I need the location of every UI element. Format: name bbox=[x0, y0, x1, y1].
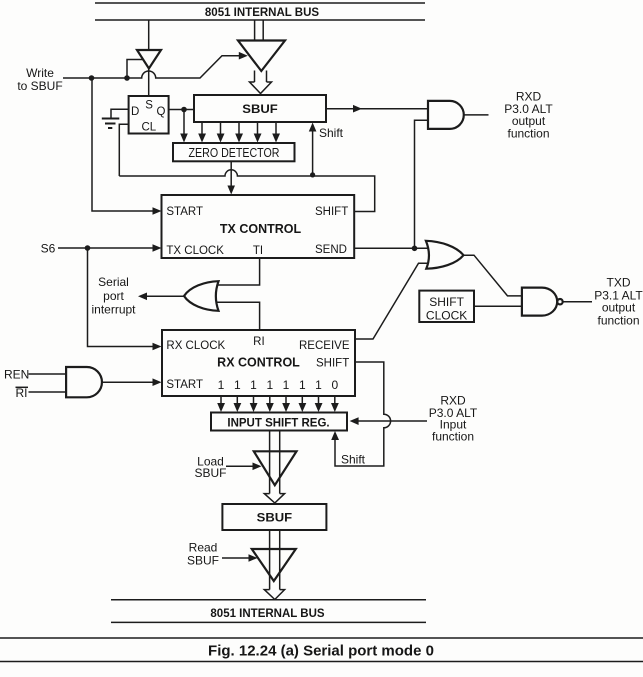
svg-text:CL: CL bbox=[142, 122, 157, 134]
svg-text:1: 1 bbox=[299, 378, 306, 392]
wire: S6 to TX CLOCK bbox=[58, 244, 162, 252]
box: ZERO DETECTOR bbox=[173, 143, 295, 161]
svg-text:Serial: Serial bbox=[98, 275, 129, 289]
svg-text:S: S bbox=[145, 100, 153, 112]
wire: shift clock to NAND bbox=[474, 305, 521, 307]
wire: SEND to right OR gate bbox=[354, 247, 431, 249]
wire: RI input to AND bbox=[29, 391, 67, 393]
label: Write to SBUF bbox=[17, 66, 62, 93]
wire: S6 down to RX CLOCK bbox=[88, 248, 162, 350]
junction dot: shift line node bbox=[310, 172, 315, 177]
label: RI with overline bbox=[16, 386, 29, 400]
svg-text:SBUF: SBUF bbox=[257, 511, 293, 525]
arrows: SBUF to zero detector (5) bbox=[198, 122, 280, 143]
labels: shift register bits 1 1 1 1 1 1 1 0 bbox=[218, 378, 339, 392]
label: TXD P3.1 ALT output function bbox=[594, 276, 643, 328]
wire: RI up to interrupt OR bbox=[216, 302, 260, 330]
and-gate: REN and /RI bbox=[66, 367, 102, 397]
wire: input shift reg to load buffer (double) bbox=[270, 431, 280, 494]
box: SHIFT CLOCK bbox=[419, 291, 474, 323]
bus: 8051 internal bus (bottom) bbox=[111, 600, 426, 623]
wire: zero detector output to TX control top bbox=[227, 161, 235, 194]
buffer: write driver triangle bbox=[238, 41, 285, 72]
buffer: read SBUF triangle bbox=[252, 549, 296, 581]
svg-text:SHIFT: SHIFT bbox=[316, 358, 349, 370]
svg-text:1: 1 bbox=[218, 378, 225, 392]
wire: write line down to TX START bbox=[92, 78, 162, 215]
caption: figure caption rules bbox=[0, 638, 643, 662]
wire: SEND node up to RXD AND gate bbox=[415, 120, 429, 248]
wire: RECEIVE to right OR gate bbox=[355, 263, 431, 339]
arrow: interrupt output to left bbox=[138, 293, 184, 301]
svg-text:1: 1 bbox=[283, 378, 290, 392]
svg-text:INPUT SHIFT REG.: INPUT SHIFT REG. bbox=[227, 417, 329, 429]
inverter: write clock inverter bbox=[137, 50, 161, 69]
junction dot: Q node bbox=[181, 107, 187, 113]
svg-text:1: 1 bbox=[266, 378, 273, 392]
wire: REN input to AND bbox=[29, 373, 67, 375]
wire: write-to-SBUF line with hop and arrow into driver bbox=[63, 52, 248, 78]
wire: Q output to SBUF bbox=[169, 109, 194, 111]
svg-text:port: port bbox=[103, 289, 124, 303]
wire: CL input from shift line bbox=[119, 124, 128, 176]
svg-text:S6: S6 bbox=[41, 242, 56, 256]
svg-text:Read: Read bbox=[189, 541, 218, 555]
svg-text:1: 1 bbox=[250, 378, 257, 392]
label: S6 bbox=[41, 242, 56, 256]
arrow: hollow arrowhead into bottom bus bbox=[264, 590, 284, 600]
label: REN bbox=[4, 368, 29, 382]
svg-text:Q: Q bbox=[157, 106, 166, 118]
register SBUF (top) bbox=[194, 95, 326, 122]
svg-text:Shift: Shift bbox=[341, 453, 366, 467]
svg-text:SBUF: SBUF bbox=[194, 466, 226, 480]
wire: shift arrow up into SBUF bbox=[309, 123, 344, 175]
wire: D input to ground bbox=[111, 109, 129, 118]
svg-text:SBUF: SBUF bbox=[242, 102, 278, 116]
wire: RX SHIFT loop to input shift reg (with hop) bbox=[331, 362, 390, 467]
svg-text:RX CLOCK: RX CLOCK bbox=[166, 340, 225, 352]
label: Load SBUF bbox=[194, 455, 226, 480]
svg-text:TX CONTROL: TX CONTROL bbox=[220, 222, 302, 236]
svg-text:Write: Write bbox=[26, 66, 54, 80]
svg-text:function: function bbox=[597, 313, 639, 327]
svg-text:SHIFT: SHIFT bbox=[429, 295, 464, 309]
junction dot: write line node B bbox=[124, 75, 130, 81]
svg-text:function: function bbox=[432, 429, 474, 443]
junction dot: S6 node bbox=[85, 245, 91, 251]
svg-text:TX CLOCK: TX CLOCK bbox=[166, 245, 224, 257]
svg-text:START: START bbox=[166, 379, 203, 391]
nand-gate: TXD driver bbox=[522, 288, 563, 316]
svg-text:ZERO DETECTOR: ZERO DETECTOR bbox=[189, 146, 280, 160]
svg-text:SEND: SEND bbox=[315, 244, 347, 256]
junction dot: SEND node bbox=[412, 246, 418, 252]
box: INPUT SHIFT REG bbox=[211, 413, 347, 431]
svg-text:Fig. 12.24 (a) Serial port mod: Fig. 12.24 (a) Serial port mode 0 bbox=[208, 643, 434, 660]
arrow: hollow arrowhead into SBUF2 bbox=[264, 494, 284, 503]
wire: inverter output down to flip-flop S (through hop) bbox=[148, 69, 150, 97]
arrow: load SBUF to triangle bbox=[226, 463, 262, 471]
wire: SBUF output to RXD AND gate bbox=[326, 105, 428, 113]
or-gate: serial port interrupt (points left) bbox=[184, 281, 219, 311]
buffer: load SBUF triangle bbox=[254, 451, 297, 485]
block: TX CONTROL bbox=[162, 195, 355, 258]
svg-text:function: function bbox=[507, 127, 549, 141]
wire: TI down to interrupt OR bbox=[216, 258, 260, 285]
label: Read SBUF bbox=[187, 541, 219, 568]
svg-text:interrupt: interrupt bbox=[91, 303, 136, 317]
label: RXD P3.0 ALT output function bbox=[504, 89, 553, 140]
svg-text:REN: REN bbox=[4, 368, 29, 382]
svg-text:RI: RI bbox=[253, 336, 265, 348]
arrows: RX control bits to input shift reg (8) bbox=[217, 396, 339, 412]
svg-text:RECEIVE: RECEIVE bbox=[299, 340, 350, 352]
wire: bus to inverter input bbox=[148, 20, 150, 50]
svg-text:0: 0 bbox=[331, 378, 338, 392]
svg-text:to SBUF: to SBUF bbox=[17, 79, 62, 93]
wire: RXD AND output bbox=[464, 114, 489, 116]
svg-text:1: 1 bbox=[234, 378, 241, 392]
arrow: driver output hollow arrow into SBUF bbox=[250, 71, 272, 94]
svg-text:TI: TI bbox=[253, 245, 263, 257]
wire: bus double lines to write driver bbox=[255, 20, 264, 41]
or-gate: send/receive combiner bbox=[426, 241, 464, 269]
svg-text:1: 1 bbox=[315, 378, 322, 392]
arrow: read SBUF to triangle bbox=[222, 554, 258, 562]
svg-text:SBUF: SBUF bbox=[187, 553, 219, 567]
svg-text:RX CONTROL: RX CONTROL bbox=[217, 356, 300, 370]
svg-text:8051 INTERNAL BUS: 8051 INTERNAL BUS bbox=[205, 7, 320, 19]
wire: NAND output to TXD bbox=[564, 301, 593, 303]
register SBUF (bottom) bbox=[222, 504, 326, 530]
caption: Fig. 12.24 (a) Serial port mode 0 bbox=[208, 643, 434, 660]
arrow: RXD input to input shift reg bbox=[350, 417, 427, 425]
svg-text:CLOCK: CLOCK bbox=[426, 309, 467, 323]
wire: OR output diagonal to NAND bbox=[463, 255, 522, 296]
wire: shift line TX SHIFT to FF CL and SBUF (with hop) bbox=[119, 170, 374, 212]
label: Serial port interrupt bbox=[91, 275, 136, 317]
block: RX CONTROL bbox=[162, 330, 355, 396]
svg-text:START: START bbox=[166, 206, 203, 218]
svg-text:8051 INTERNAL BUS: 8051 INTERNAL BUS bbox=[210, 608, 325, 620]
wire: node B up to inverter side bbox=[127, 60, 143, 79]
svg-text:Shift: Shift bbox=[319, 126, 344, 140]
arrow: Q node down to zero detector bbox=[180, 110, 188, 143]
ground bbox=[102, 119, 120, 129]
and-gate: RXD P3.0 output bbox=[428, 101, 464, 129]
flip-flop U1 D/S/Q/CL bbox=[129, 96, 169, 134]
junction dot: write line node A bbox=[89, 75, 95, 81]
svg-text:D: D bbox=[131, 106, 139, 118]
bus: 8051 internal bus (top) bbox=[95, 3, 425, 20]
svg-text:SHIFT: SHIFT bbox=[315, 206, 348, 218]
arrow: AND output to RX START bbox=[102, 378, 162, 386]
wire: SBUF2 to read buffer (double) bbox=[270, 530, 280, 590]
label: RXD P3.0 ALT Input function bbox=[429, 394, 478, 444]
